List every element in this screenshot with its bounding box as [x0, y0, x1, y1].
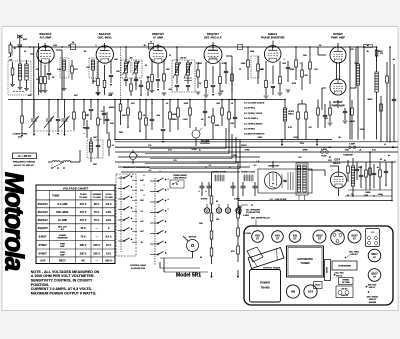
svg-text:.01: .01 [231, 103, 234, 105]
rf coil can box [60, 58, 69, 78]
resistor R2 [40, 77, 43, 91]
svg-text:10 MFD: 10 MFD [201, 199, 208, 201]
svg-text:ANT. TRANS.: ANT. TRANS. [367, 296, 379, 299]
wire 298 top [298, 100, 306, 104]
res x348b [347, 160, 350, 182]
svg-text:FREQUENCY RANGE: FREQUENCY RANGE [13, 161, 36, 164]
res x366c [365, 162, 368, 190]
gnd x205 [204, 125, 206, 127]
wire tube2 plate [104, 43, 106, 48]
svg-text:230 V.: 230 V. [80, 252, 87, 255]
osc extra res [108, 132, 115, 156]
svg-text:6J5: 6J5 [293, 234, 298, 237]
svg-text:2.9 V.: 2.9 V. [106, 203, 113, 206]
electrolytic C23 [241, 182, 246, 196]
res x370b [369, 168, 372, 186]
wire right v1 [363, 46, 365, 139]
tube 6SK7GT label [152, 32, 164, 40]
svg-text:H.P.: H.P. [298, 157, 302, 159]
extra stub labels top [125, 59, 177, 60]
misc value labels [24, 44, 396, 259]
svg-text:SCREEN: SCREEN [92, 194, 101, 196]
antenna coil L1 [18, 60, 23, 90]
svg-text:RECT.: RECT. [59, 260, 66, 263]
chassis ant pad [366, 284, 377, 293]
res x302c [301, 62, 309, 90]
svg-text:OZ4: OZ4 [40, 259, 46, 263]
svg-text:CONDENSER: CONDENSER [338, 266, 351, 268]
res x306 [305, 104, 308, 140]
svg-text:6J5GT: 6J5GT [39, 234, 47, 238]
svg-text:TO GND: TO GND [79, 197, 88, 199]
svg-text:5: 5 [95, 45, 96, 47]
res x213b [212, 108, 215, 140]
label switch legend 1 [244, 102, 265, 105]
svg-text:47K: 47K [74, 68, 78, 71]
resistor R15 [309, 46, 312, 84]
voltage chart grid [36, 185, 115, 264]
svg-text:155V: 155V [358, 167, 363, 169]
svg-text:600 KC: 600 KC [341, 288, 348, 290]
res x170 [169, 99, 172, 132]
svg-text:6V6GT: 6V6GT [39, 251, 48, 255]
svg-text:270: 270 [380, 53, 383, 55]
label A lead [384, 143, 394, 148]
svg-text:FIELD: FIELD [288, 114, 294, 116]
res x190 [189, 99, 192, 128]
svg-text:(P) SELECTOR: (P) SELECTOR [246, 212, 261, 214]
svg-text:AVC: AVC [28, 94, 32, 97]
svg-text:VOLTAGE CHART: VOLTAGE CHART [63, 187, 89, 191]
antenna trans box [8, 61, 31, 95]
resistor R14 [295, 46, 298, 80]
res x381 [380, 104, 383, 120]
svg-text:T2: T2 [169, 55, 171, 57]
osc coil box2 [87, 140, 103, 158]
switch contact bank1-4 [118, 206, 132, 210]
wire tube4 pins [206, 62, 220, 84]
svg-text:6SG7GT: 6SG7GT [39, 32, 51, 36]
svg-text:155V.: 155V. [345, 150, 350, 152]
cap C11 [271, 86, 275, 95]
extra verticals midband [56, 99, 60, 135]
tube 6V6GT (lower) [330, 79, 346, 95]
label .05 x [208, 117, 212, 119]
svg-text:X4: X4 [72, 41, 74, 44]
svg-text:6J5GT: 6J5GT [268, 32, 278, 36]
res x352 [351, 100, 354, 140]
label mfd [14, 48, 16, 50]
svg-text:.02: .02 [166, 103, 169, 105]
resistor R8 [163, 72, 166, 90]
electrolytic C24 [253, 182, 258, 196]
wire chain1 top [211, 172, 213, 196]
svg-text:GANG: GANG [326, 267, 329, 273]
Motorola logo [0, 172, 28, 271]
svg-text:70 V.: 70 V. [94, 211, 100, 214]
svg-text:PWR. AMP: PWR. AMP [331, 36, 345, 40]
svg-text:600KC: 600KC [109, 107, 116, 109]
wire oz4 top [330, 166, 339, 172]
band coil 2 [60, 161, 74, 162]
T1 primary [124, 60, 127, 78]
label 22K [92, 81, 96, 83]
tube 6J5GT [264, 46, 281, 63]
svg-text:70 V.: 70 V. [80, 235, 86, 238]
svg-text:CATH.: CATH. [106, 193, 113, 196]
chassis tone cont [331, 230, 345, 244]
svg-text:L.P.: L.P. [256, 161, 260, 163]
label volume [200, 141, 211, 146]
wire AVC bus [8, 99, 285, 101]
svg-text:(P) SELECTOR: (P) SELECTOR [131, 268, 146, 270]
osc coil L2 [89, 137, 92, 162]
vibrator circle [265, 172, 282, 189]
svg-text:8.2V.: 8.2V. [106, 219, 112, 222]
wire avc drop [226, 56, 233, 100]
electrolytic C21 [205, 182, 211, 196]
svg-text:S-1 CLOSED } BASS: S-1 CLOSED } BASS [244, 102, 265, 105]
res x131b [130, 78, 133, 96]
wire bus y152 [115, 151, 398, 153]
svg-text:OSC: OSC [114, 59, 119, 61]
chassis wire top [255, 220, 257, 227]
svg-text:8MFD: 8MFD [377, 51, 383, 53]
extra cap x325 [323, 104, 327, 128]
sens pot [130, 150, 140, 164]
resistor R3 [44, 77, 47, 91]
wire bottom right bus [238, 200, 392, 202]
label 47K [74, 68, 78, 71]
svg-text:TO GND: TO GND [105, 197, 114, 199]
label 100K a [241, 63, 246, 65]
label switch legend 6 [244, 129, 255, 131]
dashed box inv [251, 56, 259, 78]
res x148b [147, 76, 150, 96]
cap x357b [355, 162, 359, 180]
res x140 [139, 99, 142, 130]
wire 6V6b cath [337, 100, 339, 108]
T2 trimmers [175, 85, 190, 91]
svg-text:TUBE: TUBE [52, 194, 60, 198]
chassis osc pad label [334, 272, 344, 278]
label padder [110, 123, 114, 125]
svg-text:AVC: AVC [74, 94, 78, 97]
chassis automatic tuner [287, 246, 324, 277]
svg-text:8MFD: 8MFD [368, 99, 374, 101]
osc extra cap [83, 120, 89, 138]
svg-text:500K: 500K [215, 125, 220, 127]
chassis socket 6V6GT [272, 231, 284, 243]
svg-text:2.2: 2.2 [112, 145, 115, 147]
cap C5 [109, 75, 113, 86]
label freq range2 [14, 164, 35, 167]
chassis label top [251, 216, 270, 219]
chassis socket 6J5GT [289, 231, 301, 243]
svg-text:6SA7GT: 6SA7GT [99, 32, 111, 36]
chassis kc box [336, 286, 353, 298]
resistor chain1-1 [210, 196, 213, 213]
chassis osc trim label [345, 251, 360, 258]
label control head [130, 264, 147, 270]
switch contact bank2-6 [150, 230, 166, 234]
voltage chart cells [38, 202, 113, 262]
resistor chain2-1 [237, 210, 240, 228]
wire tube3 plate [157, 44, 159, 48]
wire bus y162 [115, 161, 396, 163]
svg-text:1600 KC: 1600 KC [369, 299, 377, 301]
res x120 [119, 99, 122, 125]
switch contact bank1-6 [118, 227, 132, 231]
tube OZ4 [331, 172, 347, 188]
tube4 diode detail [208, 50, 218, 58]
svg-text:455: 455 [130, 57, 133, 60]
svg-text:6V6GT: 6V6GT [39, 243, 48, 247]
dots row antenna box [13, 91, 23, 92]
T2 primary [175, 60, 178, 84]
wire right col2 [369, 151, 371, 190]
chassis outline [244, 226, 393, 305]
chassis VIB [286, 285, 299, 298]
svg-text:S-1 OPEN } VOICE: S-1 OPEN } VOICE [244, 113, 263, 115]
svg-text:Motorola: Motorola [0, 172, 28, 271]
svg-text:R.F. AMP: R.F. AMP [40, 36, 52, 40]
chassis socket 6SK7 [368, 249, 381, 262]
svg-text:245 V.: 245 V. [93, 244, 100, 247]
junction box x151 [149, 42, 154, 50]
T1 secondary [134, 60, 137, 78]
trimmer arrow T2a [173, 62, 181, 78]
wire T2 plate [176, 46, 178, 60]
label speaker sel [246, 209, 261, 215]
wire 6V6a grid [318, 47, 326, 55]
battery symbol [238, 205, 242, 215]
svg-text:8.0 V.: 8.0 V. [106, 235, 113, 238]
tube 6SQ7GT label [204, 32, 222, 40]
wire y190 seg [348, 189, 392, 191]
osc components v1 [83, 99, 86, 129]
wire tube3 pins [152, 59, 164, 78]
switch bank 1 rail [120, 176, 122, 252]
label A plus2 [380, 154, 391, 161]
tube 6SA7GT label [98, 32, 113, 40]
wire nest 4 [145, 137, 236, 164]
extra vertical x74 [73, 99, 76, 130]
tube 6V6GT label [331, 32, 345, 40]
label 100K b [299, 63, 301, 65]
switch contact bank2-3 [150, 199, 166, 203]
svg-text:TRANS: TRANS [261, 286, 270, 290]
chassis output trans [247, 247, 284, 270]
res x222 [221, 99, 224, 126]
svg-text:600 KC: 600 KC [336, 275, 343, 277]
svg-text:I.F. = 455 KC: I.F. = 455 KC [18, 155, 32, 158]
motor leads [160, 236, 193, 258]
chassis IF box [366, 229, 380, 247]
wire tube1 plate [44, 43, 46, 48]
labels between switch banks [132, 179, 145, 244]
extra res x318 [317, 100, 320, 129]
gnd x386b [385, 185, 387, 187]
cap C12 [343, 108, 347, 120]
connector plugs [204, 204, 241, 213]
svg-text:100: 100 [216, 219, 219, 221]
motor M1 [187, 237, 199, 252]
wire bank2 out2 [164, 258, 208, 272]
chassis gang [325, 260, 331, 281]
svg-text:6SA7: 6SA7 [351, 234, 358, 237]
resistor ladder x377 [375, 72, 378, 140]
gnd x128 [127, 127, 129, 129]
fuse F2 [349, 143, 356, 149]
svg-text:250: 250 [169, 89, 172, 91]
hash component [288, 172, 293, 190]
resistor R13 [279, 77, 282, 93]
variable capacitor gang 2 [44, 99, 54, 136]
svg-text:SENSITIVITY CONTROL (R7): SENSITIVITY CONTROL (R7) [123, 167, 150, 169]
svg-text:.5: .5 [229, 167, 231, 169]
svg-text:VIB: VIB [291, 290, 295, 294]
wire B+ bus lower [115, 141, 398, 143]
osc v3 [97, 99, 100, 140]
svg-text:A+: A+ [199, 149, 201, 152]
svg-text:600 KC: 600 KC [369, 287, 376, 289]
svg-text:CONTROL HEAD: CONTROL HEAD [130, 264, 147, 267]
speaker field coil [283, 99, 286, 140]
svg-text:TO GND: TO GND [93, 197, 102, 199]
padder cap [105, 112, 109, 134]
wire oz4 down [338, 189, 340, 197]
svg-text:70 V.: 70 V. [94, 219, 100, 222]
label freq range [13, 161, 36, 164]
label T2 455 [166, 57, 187, 72]
label 0.1 d [283, 59, 297, 85]
labels right lower [351, 191, 382, 196]
svg-text:X1: X1 [150, 42, 152, 44]
svg-text:3: 3 [167, 189, 168, 191]
svg-text:245V.: 245V. [257, 136, 262, 139]
resistor R18 [386, 62, 389, 142]
res x380c [379, 162, 382, 190]
label 10MEG [199, 83, 202, 85]
svg-text:CANDOHM: CANDOHM [343, 154, 353, 157]
wire T1 plate [125, 46, 136, 90]
svg-text:170 V.: 170 V. [80, 203, 87, 206]
svg-text:6SG7: 6SG7 [371, 273, 378, 276]
label lp plate [270, 198, 287, 201]
wire nest 5 [150, 140, 240, 169]
switch bank 2 rail [154, 178, 156, 265]
label chain values [216, 201, 251, 253]
svg-text:6V6GT: 6V6GT [333, 32, 343, 36]
svg-text:2.2: 2.2 [101, 111, 104, 113]
svg-text:PHASE INVERTER: PHASE INVERTER [261, 36, 285, 40]
svg-text:RF TRIM: RF TRIM [342, 282, 350, 284]
svg-text:B1: B1 [14, 48, 16, 50]
label vibrator [268, 164, 279, 167]
svg-text:6: 6 [143, 175, 144, 177]
svg-text:8: 8 [143, 195, 144, 197]
svg-text:PLATE: PLATE [80, 193, 87, 196]
resistor R10 [219, 77, 222, 93]
svg-text:.01: .01 [239, 69, 242, 71]
chassis condenser [332, 261, 357, 270]
svg-text:CAND.: CAND. [365, 191, 371, 194]
res x178 tall [177, 99, 180, 130]
svg-text:6V6: 6V6 [255, 234, 260, 237]
resistor candohm [343, 154, 354, 197]
label switch legend 5 [244, 122, 263, 125]
trimmer arrow T1a [123, 61, 130, 75]
wire right v6 [380, 96, 382, 142]
switch contact bank1-1 [118, 175, 132, 179]
svg-text:.1: .1 [151, 103, 153, 105]
gang link dashed [34, 130, 75, 132]
wire chain2 top [237, 161, 239, 210]
svg-text:5: 5 [167, 209, 168, 211]
chassis socket 6SG7 [368, 269, 381, 282]
resistor R11 [247, 46, 250, 80]
svg-text:0.0V.: 0.0V. [106, 211, 112, 214]
label switch legend 2 [244, 108, 255, 110]
wire grid1 left [30, 53, 34, 55]
svg-text:SW: SW [328, 147, 331, 149]
cap x288c [286, 61, 291, 92]
res x146 [145, 99, 148, 140]
tube 6SG7GT label [39, 32, 51, 40]
svg-text:S-1 OPEN } RADIO: S-1 OPEN } RADIO [244, 122, 263, 125]
res x229 [228, 99, 231, 132]
wire pt to oz4 [308, 170, 325, 176]
cap x394 [392, 64, 396, 112]
down arrow a [281, 139, 283, 146]
svg-text:455 KC: 455 KC [180, 57, 187, 60]
svg-text:ANT. PAD: ANT. PAD [368, 284, 377, 287]
svg-text:INVERTER: INVERTER [57, 238, 68, 240]
svg-text:OZ4: OZ4 [334, 158, 340, 162]
svg-text:NC: NC [81, 260, 85, 263]
svg-text:.05: .05 [143, 115, 146, 117]
cap C3 [47, 73, 51, 80]
wire left col [33, 43, 39, 118]
chassis power trans [250, 270, 281, 303]
tube 6SK7GT [149, 46, 166, 63]
svg-text:I. F.: I. F. [371, 232, 375, 234]
volume pot [192, 127, 202, 146]
chassis socket 6SQ7GT [313, 230, 326, 243]
svg-text:AUTOMATIC: AUTOMATIC [297, 257, 313, 261]
svg-text:OSC. TRIM.: OSC. TRIM. [349, 251, 360, 253]
svg-text:.05: .05 [319, 45, 322, 47]
tube OZ4 label [333, 158, 341, 166]
svg-text:1: 1 [159, 171, 160, 173]
osc coil box [89, 58, 97, 78]
svg-text:OSC. PAD: OSC. PAD [335, 272, 345, 275]
svg-text:.006: .006 [216, 103, 220, 105]
vibrator box [258, 169, 312, 193]
spark plate 1 [212, 171, 226, 182]
trimmer cap left [8, 42, 13, 62]
svg-text:S-2 OPEN }: S-2 OPEN } [244, 129, 255, 131]
svg-text:ANT. RECEPTACLE: ANT. RECEPTACLE [251, 216, 270, 219]
wire 6V6 cath a [337, 62, 340, 80]
svg-text:8: 8 [205, 167, 206, 169]
svg-text:.05: .05 [36, 69, 39, 71]
svg-text:275V.: 275V. [300, 143, 305, 145]
notes text [31, 270, 100, 296]
extra vertical x22 [21, 99, 24, 137]
svg-text:1600 KC: 1600 KC [341, 295, 349, 297]
